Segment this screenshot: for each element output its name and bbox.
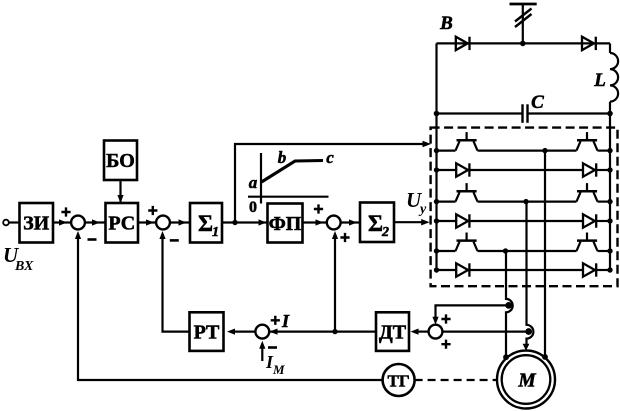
row 5 wire [437,250,456,252]
plus sign at summer S1 [61,207,70,216]
tachogenerator ТГ [383,364,415,396]
svg-text:М: М [272,362,285,377]
wire loop1 to summer S4 [436,305,509,321]
label Uу [406,188,427,217]
right bus junction dots [607,148,612,273]
terminal dot lead A on motor [542,354,548,360]
node on row 5 [503,248,508,253]
svg-text:РС: РС [108,213,135,235]
svg-text:b: b [278,148,287,167]
svg-text:М: М [517,371,536,392]
svg-text:ФП: ФП [269,213,302,235]
block РС [106,203,139,243]
minus sign at summer S5 [268,346,277,349]
svg-text:В: В [439,13,453,34]
thyristor VS1 left [456,132,478,151]
capacitor C wire left [437,112,523,114]
graph curve a-b-c [262,161,324,183]
thyristor VS4 right [577,183,598,202]
block БО [104,141,137,181]
diode VD2 right [583,163,596,176]
block ДТ [376,312,409,351]
wire Σ2 to converter with label Uу [394,221,426,223]
plus sign at summer S4 top [441,314,450,323]
thyristor VS2 right [577,132,598,151]
junction dot cap left [434,111,440,117]
current pickup loop 1 [505,302,512,309]
wire S4 to ДТ [418,331,429,333]
wire branch to converter top control [235,144,427,223]
diode VD5 left [456,263,469,276]
wire loop2 to summer S4 [442,331,529,333]
svg-text:Σ: Σ [198,211,213,236]
plus sign at summer S4 bottom [441,340,450,349]
svg-text:1: 1 [212,225,219,240]
wire ФП to summer S3 [303,221,328,223]
row 2 wire [437,169,457,171]
node after Σ1 [232,220,237,225]
left bus wire [435,43,437,270]
thyristor converter dashed enclosure [431,128,618,287]
inductor L [610,53,618,102]
wire S2 to Σ1 [169,221,190,223]
wire branch up to summer S3 [334,234,336,332]
right bus wire lower [609,102,611,270]
wire ДТ output to left [256,331,376,333]
wire РТ output up to summer S2 [163,234,190,332]
graph axes of ФП characteristic [260,153,262,204]
minus sign at summer S2 [170,239,179,242]
label IМ [265,352,285,377]
motor М [497,351,555,409]
diode B right [582,37,596,50]
wire IМ into S5 [261,346,263,361]
svg-text:c: c [326,148,334,167]
svg-text:0: 0 [249,199,257,216]
label UВХ [3,243,34,274]
svg-text:РТ: РТ [194,322,220,344]
wire S5 to РТ [235,331,256,333]
svg-text:a: a [249,173,258,192]
arrow into summer S5 [270,329,278,335]
top supply wire [437,42,611,44]
wire speed feedback ТГ to summer S1 [78,234,383,380]
thyristor VS6 right [577,233,598,252]
row 1 wire [437,150,456,152]
block ЗИ [20,203,54,243]
node on row 1 [542,148,547,153]
capacitor C plates [523,104,528,123]
thyristor VS5 left [456,233,478,252]
diode B left [456,37,470,50]
svg-text:ТГ: ТГ [388,372,410,391]
minus sign at summer S1 [88,238,97,241]
block Σ2 [360,203,394,243]
svg-text:ДТ: ДТ [379,322,407,344]
output lead A from row 1 [544,151,546,357]
wire ЗИ to summer S1 [53,221,72,223]
plus sign at summer S3 top [314,204,323,213]
block Σ1 [190,203,222,243]
row 6 wire [437,269,457,271]
node on row 3 [523,199,528,204]
diode VD3 left [456,214,469,227]
summing junction S1 [71,216,85,230]
plus sign at summer S2 [148,206,157,215]
block ФП [268,204,303,243]
output lead B from row 3 [527,202,534,345]
block РТ [190,312,224,351]
summing junction S3 [327,216,341,230]
output lead C from row 5 [506,251,513,358]
diode VD4 right [583,214,596,227]
wire Σ1 to ФП [222,221,268,223]
summing junction S2 [156,216,170,230]
node branch to S3 [332,329,337,334]
wire РС to summer S2 [138,221,157,223]
right bus wire upper [609,43,611,53]
wire S1 to РС [84,221,105,223]
diode VD1 left [456,163,469,176]
terminal dot lead C on motor [503,354,509,360]
summing junction S4 [429,325,443,339]
svg-text:L: L [593,70,606,91]
arrow lead B into motor [523,344,530,351]
junction dot cap right [607,111,613,117]
plus sign at summer S3 bottom [340,233,349,242]
capacitor C wire right [528,112,611,114]
svg-text:2: 2 [381,225,389,240]
current pickup loop 2 [525,328,532,335]
svg-text:ЗИ: ЗИ [23,213,50,235]
wire S3 to Σ2 [340,221,360,223]
summing junction S5 [255,325,269,339]
svg-text:ВХ: ВХ [14,259,34,274]
row 3 wire [437,201,456,203]
svg-text:Σ: Σ [368,211,383,236]
dashed shaft coupling ТГ to motor [415,379,498,381]
wire input to ЗИ [9,221,20,223]
input terminal [3,220,9,226]
label +I [271,316,280,325]
svg-text:C: C [531,92,544,113]
svg-text:I: I [281,311,290,331]
diode VD6 right [583,263,596,276]
svg-text:у: у [418,202,427,217]
wire БО to РС [119,180,121,202]
junction dot supply [520,41,526,47]
row 4 wire [437,220,457,222]
thyristor VS3 left [456,183,478,202]
left bus junction dots [434,148,439,273]
mains supply symbol [510,4,537,43]
svg-text:БО: БО [106,150,135,172]
